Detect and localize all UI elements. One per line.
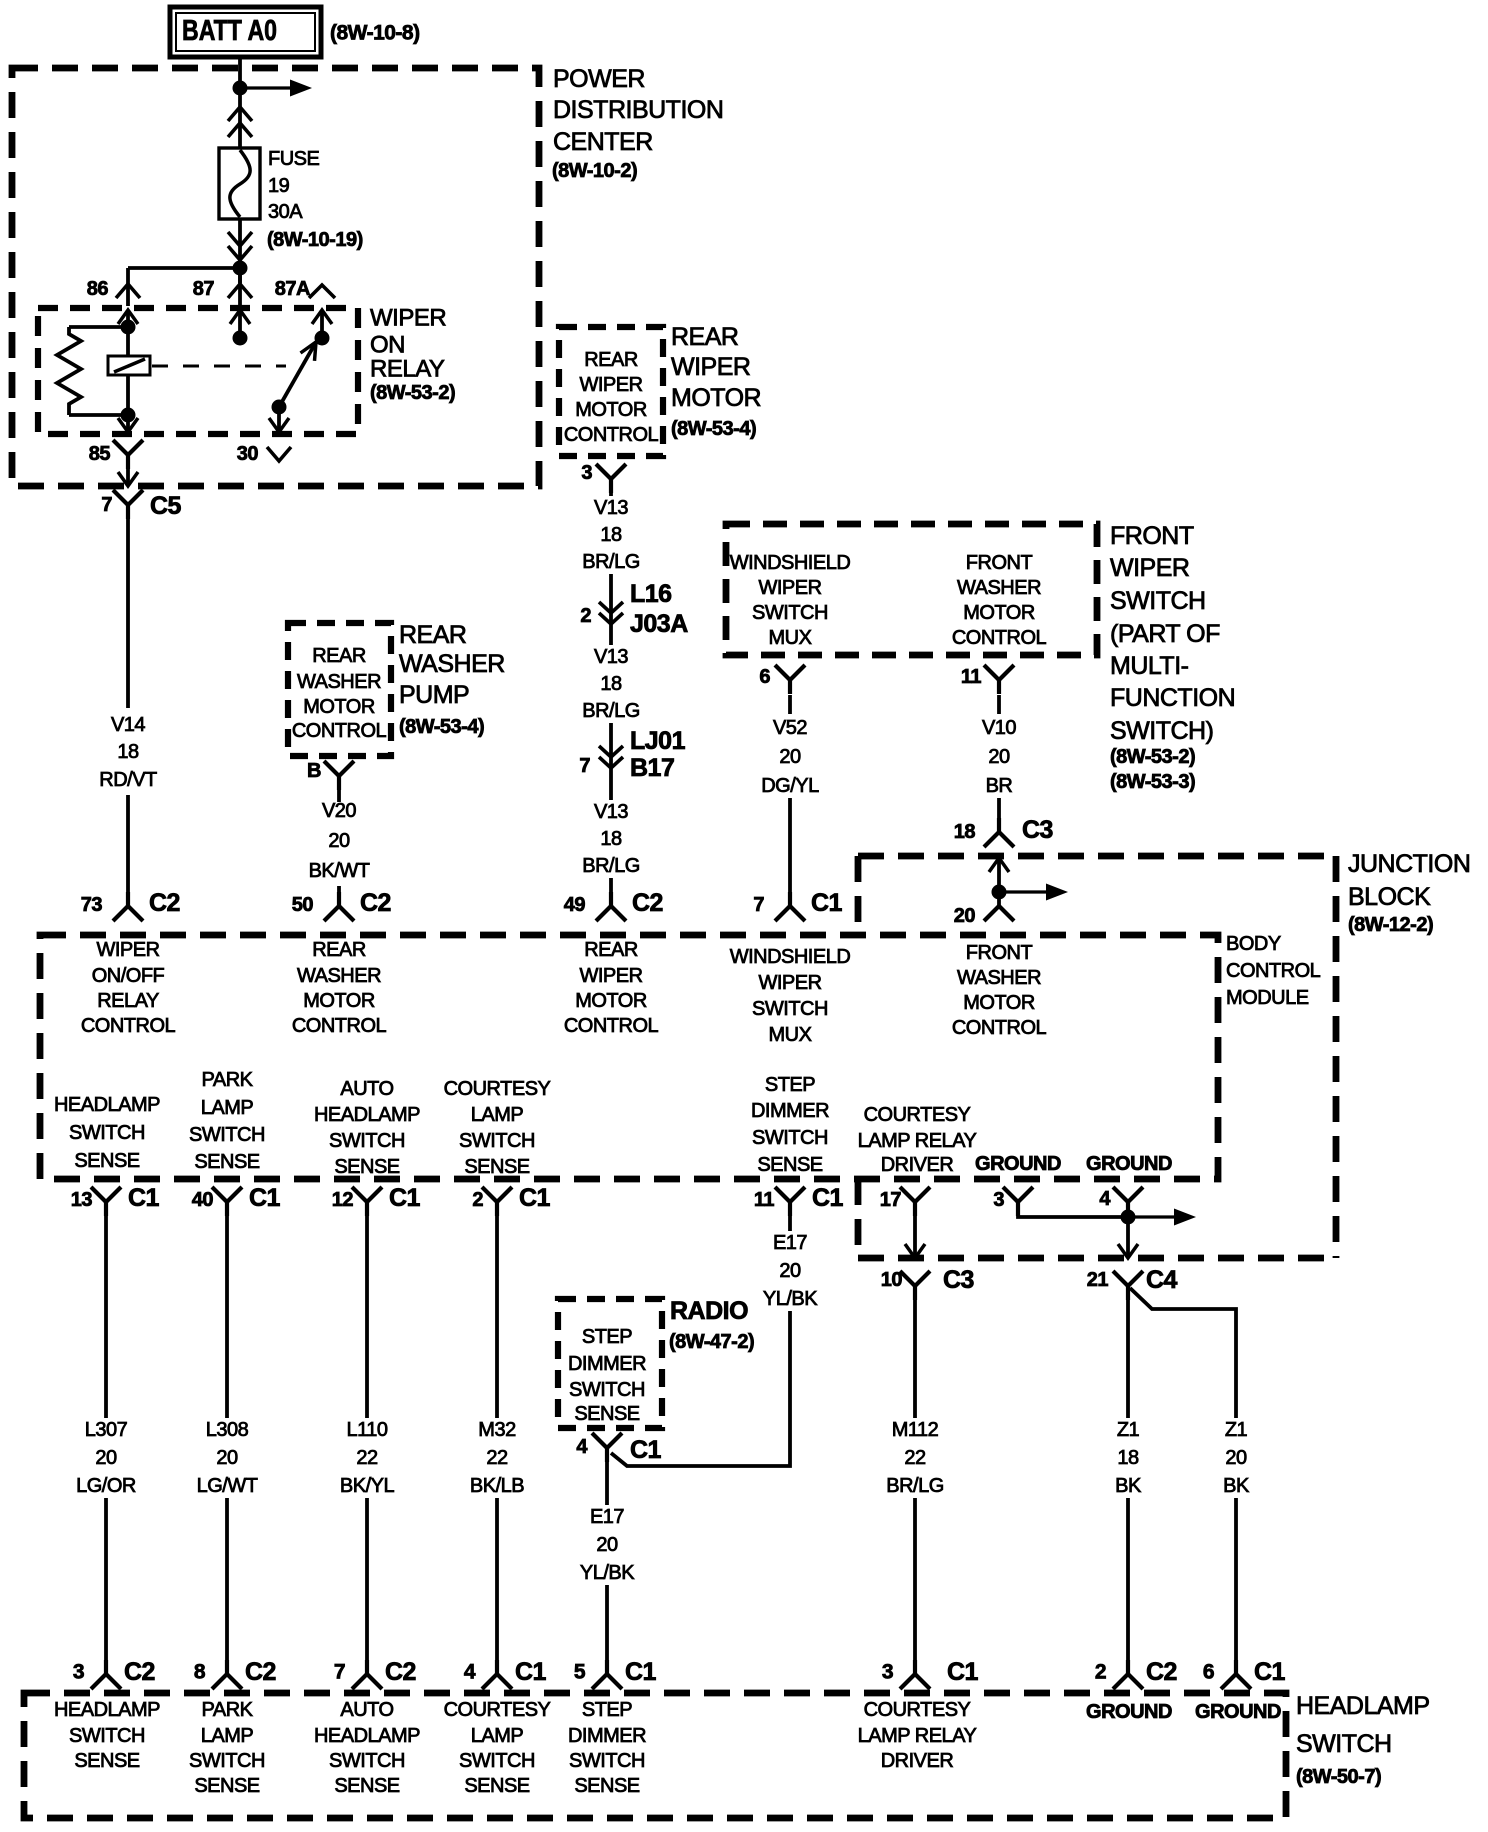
svg-text:DRIVER: DRIVER bbox=[881, 1154, 954, 1176]
svg-text:C1: C1 bbox=[249, 1184, 281, 1212]
node HEADLAMP SWITCH SENSE (junction block) bbox=[54, 1094, 160, 1172]
body control module box bbox=[858, 856, 1336, 1258]
wire E17 from radio bbox=[605, 1460, 609, 1661]
svg-text:17: 17 bbox=[880, 1189, 902, 1211]
connector C1 pin 13 junction block bbox=[91, 1187, 121, 1216]
node REAR WASHER MOTOR CONTROL (junction block) bbox=[292, 939, 387, 1037]
connector C2 pin 7 headlamp switch bbox=[352, 1660, 382, 1689]
connector C2 pin 3 headlamp switch bbox=[91, 1660, 121, 1689]
svg-text:FUSE: FUSE bbox=[268, 148, 320, 170]
svg-text:HEADLAMP: HEADLAMP bbox=[314, 1104, 420, 1126]
svg-text:DG/YL: DG/YL bbox=[761, 775, 819, 797]
svg-text:C1: C1 bbox=[389, 1184, 421, 1212]
wire L308 bbox=[225, 1214, 229, 1661]
svg-text:RD/VT: RD/VT bbox=[99, 769, 157, 791]
svg-text:WASHER: WASHER bbox=[399, 650, 505, 678]
svg-text:SENSE: SENSE bbox=[334, 1156, 399, 1178]
relay switch arm bbox=[279, 342, 316, 407]
svg-text:22: 22 bbox=[356, 1447, 378, 1469]
svg-text:12: 12 bbox=[332, 1189, 354, 1211]
pin B bbox=[324, 761, 354, 790]
label V13 18 BR/LG (1) bbox=[582, 497, 640, 573]
label V14 18 RD/VT bbox=[99, 714, 157, 791]
svg-text:(8W-53-4): (8W-53-4) bbox=[399, 716, 484, 738]
relay coil bbox=[108, 356, 150, 375]
svg-text:C1: C1 bbox=[811, 889, 843, 917]
svg-text:CONTROL: CONTROL bbox=[952, 627, 1047, 649]
svg-text:BR/LG: BR/LG bbox=[886, 1475, 944, 1497]
svg-text:C1: C1 bbox=[128, 1184, 160, 1212]
svg-text:WIPER: WIPER bbox=[579, 965, 642, 987]
svg-text:PUMP: PUMP bbox=[399, 681, 469, 709]
svg-text:WASHER: WASHER bbox=[957, 577, 1041, 599]
svg-text:(8W-12-2): (8W-12-2) bbox=[1348, 914, 1433, 936]
svg-text:7: 7 bbox=[579, 755, 590, 777]
svg-text:BK/LB: BK/LB bbox=[470, 1475, 524, 1497]
svg-text:LAMP: LAMP bbox=[471, 1104, 524, 1126]
svg-text:20: 20 bbox=[779, 746, 801, 768]
svg-text:V13: V13 bbox=[594, 497, 628, 519]
label V13 18 BR/LG (3) bbox=[582, 801, 640, 877]
node PARK LAMP SWITCH SENSE (headlamp switch) bbox=[189, 1699, 265, 1797]
svg-text:M112: M112 bbox=[892, 1419, 939, 1441]
svg-text:CONTROL: CONTROL bbox=[1226, 960, 1321, 982]
svg-text:(8W-10-19): (8W-10-19) bbox=[267, 229, 363, 251]
svg-text:CONTROL: CONTROL bbox=[564, 1015, 659, 1037]
splice LJ01 B17 bbox=[609, 731, 613, 800]
wire battery feed down bbox=[238, 57, 242, 283]
svg-text:WASHER: WASHER bbox=[957, 967, 1041, 989]
node PARK LAMP SWITCH SENSE (junction block) bbox=[189, 1069, 265, 1173]
svg-text:11: 11 bbox=[961, 666, 982, 688]
svg-text:MOTOR: MOTOR bbox=[575, 399, 647, 421]
relay resistor bbox=[57, 327, 128, 415]
svg-text:SWITCH: SWITCH bbox=[1296, 1730, 1392, 1758]
svg-text:SENSE: SENSE bbox=[574, 1775, 639, 1797]
svg-text:SWITCH: SWITCH bbox=[329, 1750, 405, 1772]
node WIPER ON/OFF RELAY CONTROL bbox=[81, 939, 176, 1037]
junction block box bbox=[40, 935, 1218, 1179]
connector C3 pin 10 bbox=[900, 1271, 930, 1300]
svg-text:L308: L308 bbox=[206, 1419, 249, 1441]
svg-text:22: 22 bbox=[904, 1447, 926, 1469]
svg-text:SENSE: SENSE bbox=[194, 1775, 259, 1797]
arrow front washer right bbox=[999, 884, 1068, 901]
label WIPER ON RELAY (8W-53-2) bbox=[370, 305, 446, 383]
svg-text:CENTER: CENTER bbox=[553, 128, 653, 156]
svg-text:SWITCH: SWITCH bbox=[569, 1379, 645, 1401]
svg-text:18: 18 bbox=[600, 524, 622, 546]
svg-text:C1: C1 bbox=[515, 1658, 547, 1686]
svg-text:87A: 87A bbox=[275, 278, 310, 300]
svg-text:(8W-50-7): (8W-50-7) bbox=[1296, 1766, 1381, 1788]
svg-text:L110: L110 bbox=[346, 1419, 387, 1441]
label M112 22 BR/LG bbox=[886, 1419, 944, 1497]
svg-text:REAR: REAR bbox=[312, 645, 366, 667]
junction dot battery feed bbox=[233, 81, 248, 96]
pin 3 rear wiper motor bbox=[596, 464, 626, 493]
headlamp switch box bbox=[24, 1693, 1286, 1818]
wire Z1 18 BK bbox=[1126, 1299, 1130, 1661]
svg-text:CONTROL: CONTROL bbox=[564, 424, 659, 446]
svg-text:18: 18 bbox=[600, 673, 622, 695]
svg-text:(PART OF: (PART OF bbox=[1110, 620, 1220, 648]
svg-text:4: 4 bbox=[1099, 1188, 1111, 1210]
battery feed box BATT A0 bbox=[170, 7, 321, 57]
node WINDSHIELD WIPER SWITCH MUX (junction block) bbox=[730, 946, 851, 1046]
svg-text:SENSE: SENSE bbox=[464, 1156, 529, 1178]
svg-text:RELAY: RELAY bbox=[97, 990, 159, 1012]
svg-text:COURTESY: COURTESY bbox=[444, 1699, 551, 1721]
svg-text:GROUND: GROUND bbox=[1195, 1701, 1281, 1723]
svg-text:SWITCH: SWITCH bbox=[69, 1122, 145, 1144]
svg-text:HEADLAMP: HEADLAMP bbox=[314, 1725, 420, 1747]
pin 11 front washer motor control bbox=[984, 665, 1014, 694]
label FUSE 19 30A (8W-10-19) bbox=[268, 148, 320, 223]
svg-text:MOTOR: MOTOR bbox=[963, 602, 1035, 624]
svg-text:BATT A0: BATT A0 bbox=[182, 15, 277, 47]
svg-text:18: 18 bbox=[954, 821, 976, 843]
svg-text:SWITCH: SWITCH bbox=[752, 998, 828, 1020]
label L110 22 BK/YL bbox=[340, 1419, 395, 1497]
svg-text:30A: 30A bbox=[268, 201, 303, 223]
svg-text:SWITCH: SWITCH bbox=[189, 1124, 265, 1146]
svg-text:C2: C2 bbox=[632, 889, 663, 917]
label Z1 20 BK bbox=[1223, 1419, 1250, 1497]
svg-text:AUTO: AUTO bbox=[340, 1699, 393, 1721]
svg-text:GROUND: GROUND bbox=[975, 1153, 1061, 1175]
wire Z1 20 BK bbox=[1130, 1288, 1236, 1418]
svg-text:FRONT: FRONT bbox=[966, 552, 1033, 574]
label REAR WASHER PUMP (8W-53-4) bbox=[399, 621, 505, 709]
svg-text:C1: C1 bbox=[947, 1658, 979, 1686]
arrow grounds right bbox=[1128, 1209, 1196, 1226]
connector C1 pin 40 junction block bbox=[212, 1187, 242, 1216]
node STEP DIMMER SWITCH SENSE (junction block) bbox=[751, 1074, 829, 1176]
svg-text:(8W-53-2): (8W-53-2) bbox=[370, 382, 455, 404]
svg-text:ON/OFF: ON/OFF bbox=[92, 965, 165, 987]
svg-text:STEP: STEP bbox=[765, 1074, 815, 1096]
svg-text:SWITCH: SWITCH bbox=[329, 1130, 405, 1152]
svg-text:ON: ON bbox=[370, 332, 405, 359]
svg-text:BR/LG: BR/LG bbox=[582, 551, 640, 573]
svg-text:49: 49 bbox=[564, 894, 586, 916]
svg-text:3: 3 bbox=[581, 462, 592, 484]
svg-text:3: 3 bbox=[993, 1189, 1004, 1211]
svg-text:4: 4 bbox=[576, 1436, 588, 1458]
connector C2 pin 2 headlamp switch bbox=[1113, 1660, 1143, 1689]
svg-text:3: 3 bbox=[882, 1661, 893, 1684]
svg-text:C1: C1 bbox=[630, 1436, 662, 1464]
svg-text:BK: BK bbox=[1115, 1475, 1142, 1497]
svg-text:L16: L16 bbox=[630, 580, 672, 608]
svg-text:WASHER: WASHER bbox=[297, 965, 381, 987]
svg-text:3: 3 bbox=[73, 1661, 84, 1684]
wire V20 bbox=[337, 789, 341, 895]
svg-text:11: 11 bbox=[754, 1189, 775, 1211]
svg-text:HEADLAMP: HEADLAMP bbox=[54, 1699, 160, 1721]
wire V13 segment 2 bbox=[609, 723, 613, 731]
svg-text:COURTESY: COURTESY bbox=[444, 1078, 551, 1100]
svg-text:DISTRIBUTION: DISTRIBUTION bbox=[553, 96, 723, 124]
power distribution center box bbox=[12, 68, 539, 486]
wire V13 segment 3 bbox=[609, 878, 613, 895]
svg-text:18: 18 bbox=[117, 741, 139, 763]
svg-text:BK/WT: BK/WT bbox=[309, 860, 370, 882]
junction dot grounds bbox=[1121, 1210, 1136, 1225]
svg-text:FRONT: FRONT bbox=[966, 942, 1033, 964]
label JUNCTION BLOCK (8W-12-2) bbox=[1348, 850, 1470, 911]
svg-text:GROUND: GROUND bbox=[1086, 1701, 1172, 1723]
BCM entry arrow front washer bbox=[989, 858, 1009, 892]
svg-text:C2: C2 bbox=[360, 889, 391, 917]
node REAR WIPER MOTOR CONTROL (junction block) bbox=[564, 939, 659, 1037]
svg-text:BODY: BODY bbox=[1226, 933, 1281, 955]
svg-text:DRIVER: DRIVER bbox=[881, 1750, 954, 1772]
label V52 20 DG/YL bbox=[761, 717, 819, 797]
svg-text:YL/BK: YL/BK bbox=[763, 1288, 818, 1310]
svg-text:FUNCTION: FUNCTION bbox=[1110, 684, 1235, 712]
svg-text:(8W-47-2): (8W-47-2) bbox=[669, 1331, 754, 1353]
arrow battery feed right bbox=[240, 80, 312, 97]
svg-text:20: 20 bbox=[1225, 1447, 1247, 1469]
junction dot below fuse bbox=[233, 261, 248, 276]
svg-text:(8W-53-2): (8W-53-2) bbox=[1110, 746, 1195, 768]
svg-text:20: 20 bbox=[216, 1447, 238, 1469]
svg-text:REAR: REAR bbox=[584, 939, 638, 961]
svg-text:CONTROL: CONTROL bbox=[81, 1015, 176, 1037]
label HEADLAMP SWITCH (8W-50-7) bbox=[1296, 1692, 1430, 1758]
svg-text:LG/WT: LG/WT bbox=[197, 1475, 258, 1497]
svg-text:MUX: MUX bbox=[769, 1024, 812, 1046]
connector C1 pin 6 headlamp switch bbox=[1221, 1660, 1251, 1689]
svg-text:7: 7 bbox=[334, 1661, 345, 1684]
svg-text:C1: C1 bbox=[1254, 1658, 1286, 1686]
ground pin 4 junction block bbox=[1113, 1187, 1143, 1216]
relay pin 30 exit arrow bbox=[269, 407, 289, 432]
svg-text:C5: C5 bbox=[150, 492, 182, 520]
label L308 20 LG/WT bbox=[197, 1419, 258, 1497]
svg-text:LAMP: LAMP bbox=[201, 1725, 254, 1747]
connector C1 pin 7 bbox=[775, 892, 805, 921]
svg-text:WIPER: WIPER bbox=[96, 939, 159, 961]
node COURTESY LAMP RELAY DRIVER (headlamp switch) bbox=[858, 1699, 977, 1772]
wire M32 bbox=[495, 1214, 499, 1661]
svg-text:SENSE: SENSE bbox=[464, 1775, 529, 1797]
svg-text:C3: C3 bbox=[1022, 816, 1053, 844]
fuse 19 30A bbox=[219, 148, 260, 219]
svg-text:SENSE: SENSE bbox=[334, 1775, 399, 1797]
svg-text:YL/BK: YL/BK bbox=[580, 1562, 635, 1584]
svg-text:(8W-53-4): (8W-53-4) bbox=[671, 418, 756, 440]
rear wiper motor box bbox=[559, 327, 663, 456]
svg-text:SWITCH: SWITCH bbox=[1110, 587, 1206, 615]
svg-text:SWITCH: SWITCH bbox=[69, 1725, 145, 1747]
svg-text:WASHER: WASHER bbox=[297, 671, 381, 693]
svg-text:SENSE: SENSE bbox=[757, 1154, 822, 1176]
svg-text:CONTROL: CONTROL bbox=[292, 1015, 387, 1037]
svg-text:6: 6 bbox=[1203, 1661, 1214, 1684]
label E17 20 YL/BK (junction block) bbox=[763, 1232, 818, 1310]
svg-text:MOTOR: MOTOR bbox=[575, 990, 647, 1012]
svg-text:7: 7 bbox=[753, 894, 764, 916]
svg-text:20: 20 bbox=[596, 1534, 618, 1556]
svg-text:JUNCTION: JUNCTION bbox=[1348, 850, 1470, 878]
svg-text:RELAY: RELAY bbox=[370, 356, 445, 383]
svg-text:WIPER: WIPER bbox=[758, 577, 821, 599]
svg-text:CONTROL: CONTROL bbox=[952, 1017, 1047, 1039]
svg-text:20: 20 bbox=[95, 1447, 117, 1469]
svg-text:5: 5 bbox=[574, 1661, 586, 1684]
node REAR WIPER MOTOR CONTROL (motor) bbox=[564, 349, 659, 446]
svg-text:RADIO: RADIO bbox=[670, 1297, 748, 1325]
wire M112 bbox=[913, 1299, 917, 1661]
node COURTESY LAMP SWITCH SENSE (junction block) bbox=[444, 1078, 551, 1178]
splice L16 J03A bbox=[609, 596, 613, 645]
svg-text:REAR: REAR bbox=[312, 939, 366, 961]
svg-text:COURTESY: COURTESY bbox=[864, 1104, 971, 1126]
svg-text:BK: BK bbox=[1223, 1475, 1250, 1497]
connector C1 pin 2 junction block bbox=[482, 1187, 512, 1216]
svg-text:20: 20 bbox=[954, 905, 976, 927]
svg-text:21: 21 bbox=[1087, 1269, 1109, 1291]
windshield wiper switch mux box bbox=[726, 524, 1097, 655]
label Z1 18 BK bbox=[1115, 1419, 1142, 1497]
svg-text:85: 85 bbox=[89, 443, 111, 465]
label M32 22 BK/LB bbox=[470, 1419, 524, 1497]
svg-text:GROUND: GROUND bbox=[1086, 1153, 1172, 1175]
connector C1 pin 4 radio bbox=[592, 1433, 622, 1462]
node FRONT WASHER MOTOR CONTROL (switch) bbox=[952, 552, 1047, 649]
svg-text:(8W-53-3): (8W-53-3) bbox=[1110, 771, 1195, 793]
svg-text:18: 18 bbox=[1117, 1447, 1139, 1469]
svg-text:REAR: REAR bbox=[671, 323, 738, 351]
wiper on relay box bbox=[38, 308, 358, 434]
svg-text:8: 8 bbox=[194, 1661, 206, 1684]
svg-text:FRONT: FRONT bbox=[1110, 522, 1194, 550]
svg-text:LG/OR: LG/OR bbox=[76, 1475, 136, 1497]
svg-text:V52: V52 bbox=[773, 717, 807, 739]
svg-text:HEADLAMP: HEADLAMP bbox=[54, 1094, 160, 1116]
svg-text:B17: B17 bbox=[630, 754, 674, 782]
svg-text:HEADLAMP: HEADLAMP bbox=[1296, 1692, 1430, 1720]
svg-text:MUX: MUX bbox=[769, 627, 812, 649]
wire V14 bbox=[126, 519, 130, 895]
svg-text:SENSE: SENSE bbox=[74, 1150, 139, 1172]
connector C1 pin 4 headlamp switch bbox=[482, 1660, 512, 1689]
svg-text:13: 13 bbox=[71, 1189, 93, 1211]
relay pin 86 entry arrow bbox=[118, 310, 138, 327]
svg-text:C2: C2 bbox=[245, 1658, 276, 1686]
label BODY CONTROL MODULE bbox=[1226, 933, 1321, 1009]
svg-text:20: 20 bbox=[328, 830, 350, 852]
connector C3 pin 18 bbox=[984, 818, 1014, 847]
svg-text:SENSE: SENSE bbox=[574, 1403, 639, 1425]
connector C1 pin 5 headlamp switch bbox=[592, 1660, 622, 1689]
svg-text:19: 19 bbox=[268, 175, 290, 197]
node STEP DIMMER SWITCH SENSE (radio) bbox=[568, 1326, 646, 1425]
node FRONT WASHER MOTOR CONTROL (junction block) bbox=[952, 942, 1047, 1039]
label V13 18 BR/LG (2) bbox=[582, 646, 640, 722]
pin 17 courtesy lamp relay driver bbox=[900, 1187, 930, 1216]
svg-text:STEP: STEP bbox=[582, 1699, 632, 1721]
svg-text:50: 50 bbox=[292, 894, 314, 916]
svg-text:C3: C3 bbox=[943, 1266, 974, 1294]
label V10 20 BR bbox=[982, 717, 1016, 797]
wire to relay pins 86 87 bbox=[128, 268, 240, 306]
svg-text:WIPER: WIPER bbox=[579, 374, 642, 396]
svg-text:10: 10 bbox=[881, 1269, 903, 1291]
svg-text:C1: C1 bbox=[625, 1658, 657, 1686]
svg-text:LJ01: LJ01 bbox=[630, 727, 686, 755]
svg-text:MOTOR: MOTOR bbox=[671, 384, 761, 412]
label REAR WIPER MOTOR (8W-53-4) bbox=[671, 323, 761, 412]
splice chevrons below fuse bbox=[228, 232, 252, 246]
connector pin 20 front washer bbox=[997, 892, 1001, 906]
connector C1 pin 11 junction block bbox=[775, 1187, 805, 1216]
relay actuation dashed line bbox=[152, 365, 286, 368]
svg-text:MODULE: MODULE bbox=[1226, 987, 1309, 1009]
svg-text:(8W-10-8): (8W-10-8) bbox=[330, 22, 420, 45]
wire V52 bbox=[788, 695, 792, 895]
ground pin 3 junction block bbox=[1003, 1187, 1033, 1216]
svg-text:2: 2 bbox=[1095, 1661, 1106, 1684]
node COURTESY LAMP RELAY DRIVER (body control module) bbox=[858, 1104, 977, 1176]
relay pin 87A entry bbox=[312, 310, 332, 338]
svg-text:BK/YL: BK/YL bbox=[340, 1475, 395, 1497]
wire grounds to BCM edge bbox=[1118, 1217, 1138, 1258]
svg-text:C2: C2 bbox=[385, 1658, 416, 1686]
svg-text:PARK: PARK bbox=[202, 1069, 254, 1091]
wire radio to junction block bbox=[611, 1311, 790, 1466]
svg-text:SENSE: SENSE bbox=[74, 1750, 139, 1772]
svg-text:6: 6 bbox=[759, 666, 770, 688]
connector C2 pin 8 headlamp switch bbox=[212, 1660, 242, 1689]
node WINDSHIELD WIPER SWITCH MUX (switch) bbox=[730, 552, 851, 649]
svg-text:LAMP: LAMP bbox=[471, 1725, 524, 1747]
svg-text:M32: M32 bbox=[478, 1419, 516, 1441]
svg-text:SWITCH: SWITCH bbox=[752, 602, 828, 624]
radio box bbox=[558, 1299, 662, 1428]
connector C2 pin 50 bbox=[324, 892, 354, 921]
svg-text:20: 20 bbox=[988, 746, 1010, 768]
svg-text:DIMMER: DIMMER bbox=[568, 1725, 646, 1747]
svg-text:Z1: Z1 bbox=[1225, 1419, 1248, 1441]
svg-text:DIMMER: DIMMER bbox=[751, 1100, 829, 1122]
svg-text:C2: C2 bbox=[1146, 1658, 1177, 1686]
svg-text:MULTI-: MULTI- bbox=[1110, 652, 1189, 680]
junction dot relay 86 bottom bbox=[121, 408, 136, 423]
svg-text:MOTOR: MOTOR bbox=[303, 696, 375, 718]
connector C4 pin 21 bbox=[1113, 1271, 1143, 1300]
svg-text:MOTOR: MOTOR bbox=[303, 990, 375, 1012]
svg-text:WIPER: WIPER bbox=[1110, 554, 1189, 582]
svg-text:86: 86 bbox=[87, 278, 109, 300]
svg-text:AUTO: AUTO bbox=[340, 1078, 393, 1100]
svg-text:SWITCH: SWITCH bbox=[459, 1750, 535, 1772]
wire V13 segment 1 bbox=[609, 492, 613, 596]
wire pin 17 to BCM edge bbox=[905, 1214, 925, 1258]
svg-text:SWITCH: SWITCH bbox=[459, 1130, 535, 1152]
svg-text:DIMMER: DIMMER bbox=[568, 1353, 646, 1375]
svg-text:WINDSHIELD: WINDSHIELD bbox=[730, 552, 851, 574]
svg-text:REAR: REAR bbox=[399, 621, 466, 649]
svg-text:BLOCK: BLOCK bbox=[1348, 883, 1431, 911]
relay pin 85 exit arrow bbox=[118, 415, 138, 432]
svg-text:BR/LG: BR/LG bbox=[582, 855, 640, 877]
node REAR WASHER MOTOR CONTROL (pump) bbox=[292, 645, 387, 742]
svg-text:SWITCH: SWITCH bbox=[189, 1750, 265, 1772]
